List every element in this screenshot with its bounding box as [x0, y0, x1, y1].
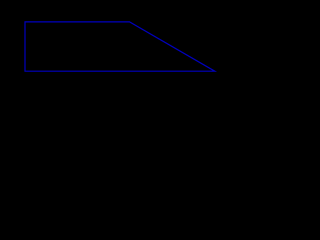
trapezoid outline [25, 22, 215, 71]
